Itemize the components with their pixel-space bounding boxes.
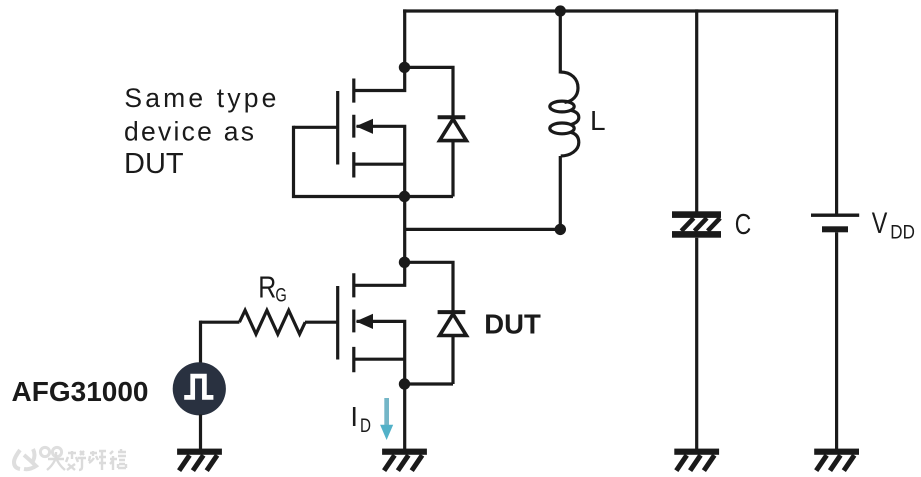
wire top drop to battery <box>835 9 838 214</box>
svg-text:D: D <box>360 415 371 437</box>
Q1 drain lead <box>354 67 407 90</box>
D2 triangle <box>440 314 467 336</box>
Q1 source lead <box>354 163 405 166</box>
node dot: Q2 source <box>399 378 410 389</box>
inductor L <box>550 72 579 156</box>
ground (capacitor) <box>674 449 719 471</box>
wire battery to ground <box>835 232 838 450</box>
Q2 drain lead <box>354 262 407 285</box>
wire switch node to inductor bottom <box>405 228 561 231</box>
wire top rail <box>403 9 838 12</box>
Q1 gate bar <box>336 91 339 165</box>
transistor Q1 (same type device as DUT) <box>294 67 407 196</box>
D1 cathode bar <box>438 115 466 119</box>
watermark logo <box>14 447 62 469</box>
svg-text:R: R <box>258 271 276 305</box>
AFG pulse glyph <box>184 376 213 397</box>
battery V_DD <box>811 214 859 451</box>
Q1 body arrowhead <box>356 119 373 134</box>
svg-text:V: V <box>872 207 888 240</box>
wire top drop to inductor <box>559 9 562 73</box>
wire top drop to capacitor <box>695 9 698 212</box>
svg-text:C: C <box>735 209 752 241</box>
svg-text:G: G <box>275 285 286 307</box>
C hatch strokes <box>681 218 720 231</box>
svg-text:DD: DD <box>890 221 915 243</box>
wire AFG to resistor <box>199 321 202 363</box>
Q1 gate-source loop wire <box>294 126 405 197</box>
ground (AFG31000) <box>177 449 222 471</box>
Q1 channel dashes <box>352 79 355 178</box>
node dot: inductor bottom <box>555 224 566 235</box>
wire switch node vertical <box>403 197 406 263</box>
Q1 gate lead <box>294 126 338 129</box>
Q2 body arrow line <box>357 321 407 384</box>
svg-text:Same type: Same type <box>124 83 276 113</box>
D1 top lead <box>405 66 454 117</box>
battery long plate <box>811 214 859 217</box>
D1 triangle <box>440 119 467 141</box>
wire C to ground <box>695 238 698 450</box>
L loop 2 <box>550 123 574 134</box>
Q2 source lead <box>354 358 405 361</box>
D2 top lead <box>405 261 454 312</box>
svg-text:DUT: DUT <box>124 148 184 180</box>
wire Q2 source to ground <box>403 384 406 450</box>
resistor R_G <box>201 310 306 334</box>
Q2 gate bar <box>336 286 339 360</box>
Q1 body arrow line <box>357 126 407 196</box>
node dot: Q1 drain <box>399 62 410 73</box>
pulse source AFG31000 <box>173 321 226 450</box>
C bottom plate <box>672 231 721 238</box>
annotation text: Same type device as DUT <box>124 83 276 180</box>
watermark text <box>47 449 126 470</box>
svg-text:DUT: DUT <box>484 309 541 340</box>
svg-text:device as: device as <box>124 117 254 147</box>
transistor Q2 (DUT) <box>305 262 406 384</box>
capacitor C <box>672 211 721 450</box>
L loop 1 <box>550 101 574 112</box>
wire inductor bottom vertical <box>559 156 562 229</box>
ground (battery) <box>814 449 859 471</box>
R_G left lead <box>201 321 240 324</box>
node dot: top rail / inductor junction <box>555 5 566 16</box>
C top plate <box>672 211 721 218</box>
ground (DUT source) <box>382 449 427 471</box>
Q2 gate lead <box>305 321 338 324</box>
Q2 body arrowhead <box>356 314 373 329</box>
svg-text:L: L <box>590 105 606 136</box>
wire AFG to ground <box>199 415 202 451</box>
D2 cathode bar <box>438 310 466 314</box>
diode D2 (DUT body diode) <box>405 261 467 384</box>
D1 bottom lead <box>405 141 454 197</box>
Q2 channel dashes <box>352 273 355 372</box>
L hump 2 <box>571 110 579 124</box>
wire top drop to Q1 drain node <box>403 9 406 67</box>
AFG circle <box>173 362 226 415</box>
L hump 1 <box>560 72 578 102</box>
L hump 3 <box>561 132 579 156</box>
svg-text:AFG31000: AFG31000 <box>12 376 149 407</box>
D2 bottom lead <box>405 336 454 385</box>
battery short plate <box>822 226 848 232</box>
current arrow I_D <box>380 398 393 440</box>
node dot: Q2 drain <box>399 257 410 268</box>
svg-text:I: I <box>350 401 358 432</box>
diode D1 (Q1 body diode) <box>405 66 467 197</box>
node dot: switch node (Q1 source / Q2 drain) <box>399 191 410 202</box>
R_G zigzag <box>239 310 305 334</box>
